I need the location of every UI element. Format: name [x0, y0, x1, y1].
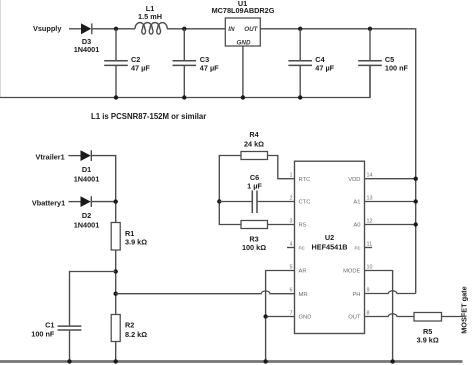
- node divider output junction: [114, 292, 118, 296]
- node C5 top junction: [368, 27, 372, 31]
- svg-text:3: 3: [290, 219, 293, 225]
- svg-text:C1: C1: [45, 321, 54, 330]
- node D1 D2 junction: [114, 199, 118, 203]
- svg-text:8.2 kΩ: 8.2 kΩ: [125, 330, 147, 339]
- svg-text:GND: GND: [299, 315, 312, 321]
- capacitor C5: [358, 29, 382, 98]
- resistor R1: [111, 223, 120, 251]
- diode D1: [81, 150, 92, 161]
- wire Vsupply to D3 anode: [69, 28, 81, 30]
- timer IC U2: [295, 161, 365, 333]
- wire R2 to ground bus: [115, 342, 117, 362]
- wire C1 branch: [70, 272, 116, 326]
- capacitor C2: [104, 29, 128, 98]
- wire Vbattery1 to D2 anode: [69, 201, 81, 203]
- svg-text:100 nF: 100 nF: [31, 329, 55, 338]
- capacitor C3: [173, 29, 197, 98]
- svg-text:100 kΩ: 100 kΩ: [242, 243, 266, 252]
- svg-text:13: 13: [367, 196, 373, 202]
- node C2 bottom junction: [114, 95, 118, 99]
- svg-text:9: 9: [367, 288, 370, 294]
- svg-text:CTC: CTC: [299, 200, 311, 206]
- svg-text:24 kΩ: 24 kΩ: [244, 139, 264, 148]
- svg-text:OUT: OUT: [244, 26, 258, 33]
- svg-text:2: 2: [290, 196, 293, 202]
- node U1 GND junction: [241, 95, 245, 99]
- svg-text:OUT: OUT: [348, 315, 361, 321]
- node R2 ground junction: [114, 359, 118, 363]
- wire divider output to MR with hop: [116, 291, 295, 294]
- resistor R4: [241, 152, 268, 160]
- node C4 top junction: [298, 27, 302, 31]
- svg-text:1N4001: 1N4001: [74, 45, 100, 54]
- wire R1 to R2: [115, 250, 117, 315]
- inductor L1: [135, 23, 167, 35]
- svg-text:MODE: MODE: [343, 269, 361, 275]
- wire L1 to U1 IN: [167, 28, 225, 30]
- wire AR to ground column: [266, 271, 295, 362]
- node C1 branch junction: [114, 269, 118, 273]
- wire U1 OUT 9V rail: [260, 29, 415, 294]
- svg-text:nc: nc: [299, 246, 305, 252]
- wire R4 right to RTC pin: [268, 156, 295, 179]
- capacitor C4: [288, 29, 312, 98]
- svg-text:1.5 mH: 1.5 mH: [138, 12, 162, 21]
- svg-text:3.9 kΩ: 3.9 kΩ: [417, 335, 439, 344]
- wire A0 to 9V rail: [365, 224, 416, 226]
- svg-text:D2: D2: [82, 211, 91, 220]
- node C6 left junction: [217, 199, 221, 203]
- faint left screenshot border: [0, 0, 2, 98]
- svg-text:47 µF: 47 µF: [200, 63, 219, 72]
- node C3 bottom junction: [182, 95, 186, 99]
- capacitor C6: [252, 191, 294, 214]
- capacitor C1: [58, 326, 82, 361]
- svg-text:Vtrailer1: Vtrailer1: [36, 153, 65, 162]
- node C2 top junction: [114, 27, 118, 31]
- svg-text:Vbattery1: Vbattery1: [32, 198, 65, 207]
- node AR-GND ground junction: [263, 359, 267, 363]
- svg-text:D1: D1: [82, 165, 91, 174]
- resistor R3: [241, 221, 268, 229]
- svg-text:L1 is PCSNR87-152M or similar: L1 is PCSNR87-152M or similar: [91, 112, 206, 121]
- wire MODE to ground column: [365, 271, 393, 362]
- svg-text:1N4001: 1N4001: [74, 174, 100, 183]
- wire A1 to 9V rail: [365, 201, 416, 203]
- node VDD junction: [414, 177, 418, 181]
- wire D3 cathode to L1: [92, 28, 135, 30]
- svg-text:IN: IN: [228, 26, 235, 33]
- node C3 top junction: [182, 27, 186, 31]
- svg-text:VDD: VDD: [348, 177, 360, 183]
- svg-text:R2: R2: [125, 321, 134, 330]
- node C4 bottom junction: [298, 95, 302, 99]
- wire RC network left vertical: [219, 156, 241, 225]
- svg-text:U2: U2: [325, 233, 334, 242]
- svg-text:14: 14: [367, 173, 373, 179]
- wire GND pin to ground column: [266, 316, 295, 318]
- wire VDD to 9V rail: [365, 178, 416, 180]
- svg-text:RTC: RTC: [299, 177, 311, 183]
- svg-text:nc: nc: [354, 246, 360, 252]
- svg-text:10: 10: [367, 265, 373, 271]
- wire D2 cathode to divider column: [91, 201, 115, 203]
- node A0 junction: [414, 222, 418, 226]
- svg-text:1N4001: 1N4001: [74, 220, 100, 229]
- wire ground return rail: [0, 66, 370, 98]
- wire bottom ground bus: [0, 360, 463, 363]
- resistor R5: [414, 313, 442, 322]
- svg-text:11: 11: [367, 242, 373, 248]
- svg-text:4: 4: [290, 242, 293, 248]
- svg-text:1 µF: 1 µF: [247, 181, 262, 190]
- resistor R2: [111, 315, 120, 342]
- svg-text:12: 12: [367, 219, 373, 225]
- svg-text:R4: R4: [249, 130, 259, 139]
- svg-text:AR: AR: [299, 269, 307, 275]
- pin 4 nc stub: [287, 247, 295, 249]
- wire C6 left lead: [219, 201, 251, 203]
- svg-text:100 nF: 100 nF: [385, 63, 409, 72]
- diode D2: [81, 196, 92, 207]
- svg-text:MR: MR: [299, 292, 308, 298]
- wire R3 right to RS pin: [268, 224, 295, 226]
- svg-text:47 µF: 47 µF: [131, 63, 150, 72]
- svg-text:PH: PH: [352, 292, 360, 298]
- wire R5 to MOSFET gate: [442, 316, 463, 318]
- svg-text:MOSFET gate: MOSFET gate: [460, 286, 469, 333]
- svg-text:A1: A1: [353, 200, 360, 206]
- wire D1 cathode to divider column: [91, 156, 115, 223]
- svg-text:RS: RS: [299, 223, 307, 229]
- diode D3: [81, 23, 92, 34]
- svg-text:A0: A0: [353, 223, 360, 229]
- svg-text:Vsupply: Vsupply: [33, 24, 62, 33]
- node A1 junction: [414, 199, 418, 203]
- wire U1 GND to ground rail: [242, 46, 244, 98]
- voltage regulator U1: [225, 18, 260, 46]
- svg-text:8: 8: [367, 311, 370, 317]
- svg-text:1: 1: [290, 173, 293, 179]
- svg-text:HEF4541B: HEF4541B: [311, 242, 347, 251]
- svg-text:3.9 kΩ: 3.9 kΩ: [125, 238, 147, 247]
- wire PH to 9V rail with hop: [365, 291, 416, 294]
- svg-text:5: 5: [290, 265, 293, 271]
- svg-text:47 µF: 47 µF: [315, 63, 334, 72]
- svg-text:MC78L09ABDR2G: MC78L09ABDR2G: [212, 6, 275, 15]
- node GND junction: [263, 314, 267, 318]
- node C1 ground junction: [67, 359, 71, 363]
- wire OUT to R5 with hop: [365, 314, 415, 317]
- svg-text:7: 7: [290, 311, 293, 317]
- svg-text:6: 6: [290, 288, 293, 294]
- node MODE ground junction: [390, 359, 394, 363]
- svg-text:GND: GND: [237, 40, 251, 47]
- pin 11 nc stub: [365, 247, 373, 249]
- wire Vtrailer1 to D1 anode: [69, 155, 81, 157]
